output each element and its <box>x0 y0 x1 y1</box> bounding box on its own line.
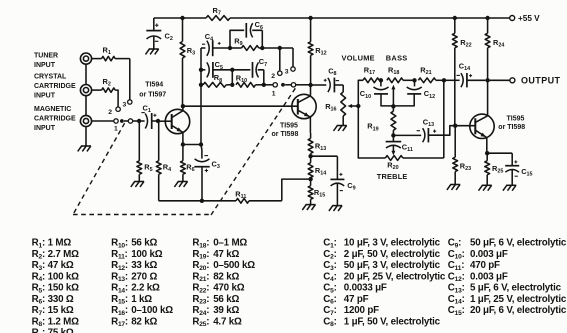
switch contact 3 (S1a) <box>123 100 133 109</box>
svg-text:INPUT: INPUT <box>34 93 56 100</box>
capacitor C12 <box>393 80 435 106</box>
svg-text:100 kΩ: 100 kΩ <box>48 271 80 282</box>
svg-text:3: 3 <box>285 69 289 76</box>
capacitor C9 <box>330 173 355 206</box>
svg-text:C6:: C6: <box>323 294 336 306</box>
svg-text:R4:: R4: <box>32 271 45 283</box>
svg-text:or TI597: or TI597 <box>139 92 166 99</box>
svg-text:47 kΩ: 47 kΩ <box>213 249 239 260</box>
resistor R17 <box>363 65 379 82</box>
ground (R25) <box>479 185 492 190</box>
connector J3 magnetic cartridge input <box>80 115 91 126</box>
svg-text:20 μF, 6 V, electrolytic: 20 μF, 6 V, electrolytic <box>470 305 567 316</box>
svg-text:R9:: R9: <box>32 328 45 333</box>
junction: R8 left <box>199 83 203 87</box>
svg-text:INPUT: INPUT <box>34 62 56 69</box>
junction: contact 2 stub <box>278 46 282 50</box>
svg-text:470 pF: 470 pF <box>470 260 500 271</box>
svg-text:R1:: R1: <box>32 238 45 250</box>
parts list column 2 (R10-R17) <box>111 238 173 329</box>
junction: volume wiper <box>356 104 360 108</box>
junction: output node <box>485 78 489 82</box>
svg-text:1 MΩ: 1 MΩ <box>48 238 72 249</box>
svg-text:C5:: C5: <box>323 283 336 295</box>
wire: R4/C3 bottom to R11 <box>159 200 236 202</box>
switch contact 2 (S1b) <box>271 71 282 80</box>
wire: R11 to R14/R15 junction <box>249 179 311 201</box>
resistor R15 <box>308 179 325 205</box>
junction: R4 top <box>156 119 160 123</box>
resistor R24 <box>485 18 504 80</box>
svg-text:56 kΩ: 56 kΩ <box>131 238 157 249</box>
terminal OUTPUT <box>510 75 561 85</box>
svg-text:CARTRIDGE: CARTRIDGE <box>34 116 76 123</box>
svg-text:1200 pF: 1200 pF <box>344 305 379 316</box>
junction: R9/C6 right <box>260 46 264 50</box>
resistor R21 <box>418 65 444 82</box>
junction: C7/R10 right <box>262 83 266 87</box>
junction: tone row output <box>442 78 446 82</box>
svg-text:0.003 μF: 0.003 μF <box>470 271 508 282</box>
junction: Q2 collector node <box>308 83 312 87</box>
svg-text:C9:: C9: <box>448 238 461 250</box>
resistor R7 <box>206 6 230 20</box>
svg-text:R6:: R6: <box>32 294 45 306</box>
svg-text:TUNER: TUNER <box>34 53 58 60</box>
wire: R13/R14 junction to C9 <box>311 156 338 179</box>
svg-text:C7:: C7: <box>323 305 336 317</box>
svg-text:1.2 MΩ: 1.2 MΩ <box>48 316 80 327</box>
svg-text:+55 V: +55 V <box>518 14 540 23</box>
capacitor C10 <box>360 80 394 106</box>
connector J1 tuner input <box>80 53 91 64</box>
svg-text:or TI598: or TI598 <box>272 131 299 138</box>
junction: R17/R18/C10 <box>379 78 383 82</box>
connector J2 crystal cartridge input <box>80 85 91 96</box>
treble control R20 <box>385 151 403 171</box>
ground (C9) <box>329 206 342 211</box>
capacitor C2 <box>146 18 173 49</box>
svg-text:0.003 μF: 0.003 μF <box>470 249 508 260</box>
svg-text:R2:: R2: <box>32 249 45 261</box>
svg-text:2 μF, 50 V, electrolytic: 2 μF, 50 V, electrolytic <box>344 249 441 260</box>
resistor R3 <box>180 18 195 106</box>
svg-text:TI594: TI594 <box>145 82 163 89</box>
ground (R23) <box>447 185 460 190</box>
svg-text:2: 2 <box>108 109 112 116</box>
resistor R19 <box>367 106 396 135</box>
junction: R19/C11/C13 <box>391 133 395 137</box>
capacitor C11 <box>386 135 413 153</box>
resistor R22 <box>452 18 471 126</box>
wire: treble row to tone output <box>403 80 444 158</box>
junction: C3 bottom <box>200 199 204 203</box>
wire: feedback network left bus <box>200 48 202 145</box>
resistor R14 <box>308 156 326 179</box>
svg-text:100 kΩ: 100 kΩ <box>131 249 163 260</box>
dashed switch-coupling line (S1) <box>73 88 296 215</box>
svg-text:C3:: C3: <box>323 260 336 272</box>
svg-text:10 μF, 3 V, electrolytic: 10 μF, 3 V, electrolytic <box>344 238 441 249</box>
junction: C4/R9/C6 <box>228 46 232 50</box>
svg-text:2.7 MΩ: 2.7 MΩ <box>48 249 80 260</box>
svg-text:47 kΩ: 47 kΩ <box>48 260 74 271</box>
svg-text:150 kΩ: 150 kΩ <box>48 283 80 294</box>
svg-text:MAGNETIC: MAGNETIC <box>34 106 71 113</box>
wire: Q1 emitter to C3 <box>183 144 201 146</box>
svg-text:0.0033 μF: 0.0033 μF <box>344 283 387 294</box>
ground (R5) <box>131 182 144 187</box>
wire: Q3 emitter to C15 <box>487 153 512 165</box>
svg-text:TI595: TI595 <box>280 122 298 129</box>
ground (R6) <box>174 182 187 187</box>
svg-text:C1:: C1: <box>323 238 336 250</box>
capacitor C6 <box>230 20 263 48</box>
wire: C5 right to R10 left <box>231 70 233 85</box>
svg-text:330 Ω: 330 Ω <box>48 294 74 305</box>
ground (R16) <box>334 126 347 131</box>
resistor R13 <box>308 133 326 156</box>
svg-text:5 μF, 6 V, electrolytic: 5 μF, 6 V, electrolytic <box>470 283 562 294</box>
junction: R5 top <box>137 119 141 123</box>
svg-text:or TI598: or TI598 <box>498 124 525 131</box>
svg-text:470 kΩ: 470 kΩ <box>213 283 245 294</box>
svg-text:15 kΩ: 15 kΩ <box>48 305 74 316</box>
resistor R8 <box>201 73 230 87</box>
svg-text:1: 1 <box>114 126 118 133</box>
svg-text:50 μF, 6 V, electrolytic: 50 μF, 6 V, electrolytic <box>470 238 567 249</box>
svg-text:2: 2 <box>271 73 275 80</box>
svg-text:20 μF, 25 V, electrolytic: 20 μF, 25 V, electrolytic <box>344 271 446 282</box>
svg-text:C2:: C2: <box>323 249 336 261</box>
resistor R4 <box>156 121 171 201</box>
capacitor C13 <box>393 117 453 142</box>
junction: C3 top <box>199 142 203 146</box>
junction: C5 left <box>199 68 203 72</box>
ground (C2) <box>146 49 159 54</box>
svg-text:OUTPUT: OUTPUT <box>521 75 561 85</box>
svg-text:1 μF, 50 V, electrolytic: 1 μF, 50 V, electrolytic <box>344 316 441 327</box>
wire: wiper to treble row <box>358 106 385 158</box>
ground (C15) <box>503 185 516 190</box>
svg-text:1 μF, 25 V, electrolytic: 1 μF, 25 V, electrolytic <box>470 294 567 305</box>
svg-text:1: 1 <box>272 91 276 98</box>
junction: rail/R12 <box>308 16 312 20</box>
resistor R2 <box>92 77 119 107</box>
svg-text:56 kΩ: 56 kΩ <box>213 294 239 305</box>
switch contact 3 (S1b) <box>285 67 295 76</box>
capacitor C1 <box>141 104 156 130</box>
switch S1b pole (contact 1) <box>264 83 311 98</box>
wire: wiper to tone row <box>358 80 363 106</box>
capacitor C14 <box>444 61 485 87</box>
transistor Q3 (TI595 or TI598) <box>470 80 525 153</box>
svg-text:82 kΩ: 82 kΩ <box>213 271 239 282</box>
junction: rail/R24 <box>485 16 489 20</box>
junction: Q1 collector node <box>181 104 185 108</box>
parts list column 5 (C9-C15) <box>448 238 567 317</box>
svg-text:TREBLE: TREBLE <box>377 172 408 181</box>
capacitor C8 <box>311 66 344 92</box>
svg-text:2.2 kΩ: 2.2 kΩ <box>131 283 160 294</box>
resistor R11 <box>235 189 249 203</box>
svg-text:39 kΩ: 39 kΩ <box>213 305 239 316</box>
junction: Q3 base node <box>453 124 457 128</box>
resistor R5 <box>137 121 153 182</box>
transistor Q2 (TI595 or TI598) <box>272 85 317 138</box>
svg-text:C4:: C4: <box>323 271 336 283</box>
svg-text:CRYSTAL: CRYSTAL <box>34 74 67 81</box>
resistor R1 <box>92 46 130 61</box>
svg-text:1 kΩ: 1 kΩ <box>131 294 152 305</box>
text CRYSTAL CARTRIDGE INPUT <box>34 74 76 100</box>
svg-text:VOLUME: VOLUME <box>342 54 375 63</box>
svg-text:BASS: BASS <box>386 54 408 63</box>
svg-text:R5:: R5: <box>32 283 45 295</box>
wire: +55 V supply rail <box>154 17 510 19</box>
junction: Q3 emitter node <box>485 151 489 155</box>
capacitor C5 <box>201 60 232 78</box>
wire: jack ground bus <box>85 64 87 146</box>
svg-text:CARTRIDGE: CARTRIDGE <box>34 83 76 90</box>
wire: base node to Q3 <box>455 125 475 127</box>
parts list column 3 (R18-R25) <box>192 238 255 329</box>
resistor R23 <box>453 126 471 185</box>
text TUNER INPUT <box>34 53 58 70</box>
terminal +55 V <box>510 14 540 23</box>
svg-text:0–500 kΩ: 0–500 kΩ <box>213 260 255 271</box>
svg-text:4.7 kΩ: 4.7 kΩ <box>213 316 242 327</box>
junction: bass wiper node <box>391 104 395 108</box>
svg-text:50 μF, 3 V, electrolytic: 50 μF, 3 V, electrolytic <box>344 260 441 271</box>
svg-text:75 kΩ: 75 kΩ <box>48 328 74 333</box>
wire: row 1 to contacts <box>262 48 293 71</box>
capacitor C15 <box>505 160 532 185</box>
resistor R12 <box>308 18 326 85</box>
parts list column 4 (C1-C8) <box>323 238 446 329</box>
volume control R16 <box>325 85 358 126</box>
svg-text:270 Ω: 270 Ω <box>131 271 157 282</box>
capacitor C4 <box>201 32 230 56</box>
switch S1a pole (contact 1) <box>92 119 138 133</box>
text MAGNETIC CARTRIDGE INPUT <box>34 106 76 132</box>
svg-text:R7:: R7: <box>32 305 45 317</box>
capacitor C7 <box>232 57 267 85</box>
svg-text:0–100 kΩ: 0–100 kΩ <box>131 305 173 316</box>
capacitor C3 <box>194 145 220 201</box>
resistor R25 <box>485 153 504 185</box>
ground (input jacks) <box>78 146 91 151</box>
svg-text:TI595: TI595 <box>507 116 525 123</box>
junction: rail/R3 <box>180 16 184 20</box>
switch contact 2 (S1a) <box>108 107 120 116</box>
svg-text:R3:: R3: <box>32 260 45 272</box>
svg-text:C8:: C8: <box>323 316 336 328</box>
resistor R10 <box>236 74 264 88</box>
bass control R18 <box>387 65 415 106</box>
junction: rail/R22 <box>453 16 457 20</box>
text TREBLE <box>377 172 408 181</box>
junction: R18/R21/C12 <box>412 78 416 82</box>
svg-text:0–1 MΩ: 0–1 MΩ <box>213 238 247 249</box>
wire: Q1 collector to Q2 base <box>183 105 298 107</box>
resistor R9 <box>230 37 262 51</box>
svg-text:82 kΩ: 82 kΩ <box>131 316 157 327</box>
transistor Q1 (TI594 or TI597) <box>139 82 189 145</box>
svg-text:3: 3 <box>123 102 127 109</box>
junction: Q1 emitter node <box>181 142 185 146</box>
svg-text:R8:: R8: <box>32 316 45 328</box>
parts list column 1 (R1-R9) <box>32 238 80 333</box>
junction: R13/R14/C9 <box>308 154 312 158</box>
text VOLUME <box>342 54 375 63</box>
svg-text:47 pF: 47 pF <box>344 294 369 305</box>
svg-text:INPUT: INPUT <box>34 125 56 132</box>
junction: C5/R8/R10 <box>230 68 234 87</box>
junction: R14/R15/R11 <box>308 177 312 181</box>
wire: output <box>488 79 510 81</box>
ground (R15) <box>302 205 315 210</box>
resistor R6 <box>181 145 195 182</box>
text BASS <box>386 54 408 63</box>
wire: R1 to contact 3 <box>129 59 131 100</box>
svg-text:33 kΩ: 33 kΩ <box>131 260 157 271</box>
